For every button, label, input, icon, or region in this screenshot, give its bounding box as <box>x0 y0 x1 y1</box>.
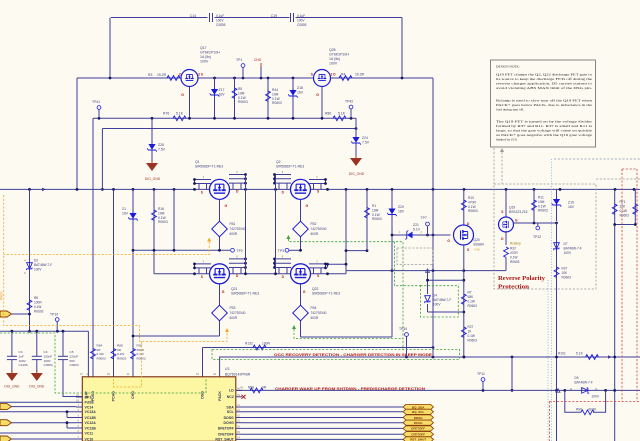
svg-text:D2: D2 <box>34 259 38 263</box>
pin ladder Q2 source <box>309 179 326 181</box>
svg-text:DIG_GND: DIG_GND <box>349 172 365 176</box>
wire Q22 source spur <box>327 264 329 267</box>
svg-text:Rclamp is used to slow turn of: Rclamp is used to slow turn off the Q19 … <box>496 99 592 103</box>
wire Q20 source column <box>463 245 465 357</box>
resistor R44 <box>267 78 269 118</box>
wire Q25 gate <box>321 87 323 119</box>
transistor Q17 <box>179 46 220 97</box>
svg-text:Rclamp: Rclamp <box>510 242 521 246</box>
net label CFETOFF <box>403 432 434 437</box>
svg-text:0.1W: 0.1W <box>468 300 475 304</box>
svg-text:VC11: VC11 <box>85 431 94 435</box>
wire DSG net <box>203 347 434 349</box>
ferrite bead FB1 <box>212 221 228 237</box>
svg-text:DIG_GND: DIG_GND <box>145 177 161 181</box>
svg-text:0.1W: 0.1W <box>510 256 517 260</box>
svg-text:G: G <box>316 93 319 97</box>
junction dots rail 2 <box>28 188 31 191</box>
red dashed box right <box>622 168 637 170</box>
svg-text:DDSG: DDSG <box>414 416 423 420</box>
svg-text:Q17: Q17 <box>200 46 207 50</box>
svg-text:44: 44 <box>126 372 130 376</box>
svg-text:R0603: R0603 <box>562 276 572 280</box>
svg-text:C0603: C0603 <box>44 363 53 367</box>
capacitor C4 <box>36 331 38 356</box>
transistor Q20 <box>454 225 474 245</box>
svg-text:3 S: 3 S <box>198 73 204 77</box>
svg-text:Reverse Polarity: Reverse Polarity <box>498 275 546 282</box>
pin ladder Q22 source <box>309 263 326 265</box>
svg-text:SIR508DP-T1-RE3: SIR508DP-T1-RE3 <box>312 292 340 296</box>
svg-text:1A (5s): 1A (5s) <box>200 55 211 59</box>
svg-text:BSS123,215: BSS123,215 <box>509 210 528 214</box>
offpage connector PACK sense <box>0 311 12 317</box>
svg-text:100V: 100V <box>433 303 441 307</box>
svg-text:100V: 100V <box>329 62 338 66</box>
ground DIG_GND left <box>146 160 158 171</box>
resistor R71 <box>614 189 616 441</box>
svg-text:R44: R44 <box>272 88 278 92</box>
pin ladder Q22 drain <box>275 258 292 260</box>
zener Z21 <box>405 230 413 239</box>
test point TP12 <box>537 223 539 226</box>
svg-text:R11: R11 <box>538 196 544 200</box>
svg-text:5.1K: 5.1K <box>176 112 184 116</box>
pin ladder Q21 drain <box>229 258 246 260</box>
svg-text:U3: U3 <box>225 367 229 371</box>
svg-text:Q21: Q21 <box>231 287 238 291</box>
gray highlight box reverse polarity <box>494 184 596 289</box>
wire PCHG column <box>113 189 115 376</box>
resistor R3 <box>167 76 180 81</box>
svg-text:DSG: DSG <box>201 391 205 399</box>
wire drop column <box>345 189 347 270</box>
capacitor C3 <box>11 331 13 356</box>
svg-text:470R: 470R <box>468 200 477 204</box>
svg-text:R0603: R0603 <box>272 101 282 105</box>
svg-text:G: G <box>225 204 228 208</box>
resistor R8 <box>27 300 32 310</box>
svg-text:10M: 10M <box>272 92 279 96</box>
svg-text:100R: 100R <box>262 342 271 346</box>
wire merge arrows <box>42 188 46 192</box>
svg-text:Z25: Z25 <box>158 143 164 147</box>
svg-text:SIR508DP-T1-RE3: SIR508DP-T1-RE3 <box>231 292 259 296</box>
svg-text:0.1W: 0.1W <box>158 216 167 220</box>
wire LD net <box>236 389 640 391</box>
pin ladder Q1 source <box>195 179 212 181</box>
svg-text:0.1W: 0.1W <box>272 97 281 101</box>
svg-text:100V: 100V <box>34 268 42 272</box>
svg-text:GT6K2P10H: GT6K2P10H <box>329 53 349 57</box>
svg-text:BAT46W-7-F: BAT46W-7-F <box>34 263 52 267</box>
svg-text:42: 42 <box>213 372 217 376</box>
no-connect NC2 <box>242 395 246 399</box>
svg-text:D7: D7 <box>564 242 568 246</box>
wire drain column Q1/Q21 <box>245 175 247 274</box>
svg-text:742792040: 742792040 <box>311 311 327 315</box>
wire drain column Q2/Q22 <box>275 175 277 274</box>
capacitor C19 <box>271 13 307 27</box>
IC right pins <box>236 389 242 391</box>
wire cap rail <box>0 330 88 332</box>
svg-text:0.1W: 0.1W <box>538 204 547 208</box>
wire Z21 node <box>392 234 451 236</box>
svg-text:OCC RECOVERY DETECTION - CHARG: OCC RECOVERY DETECTION - CHARGER DETECTI… <box>274 352 432 357</box>
svg-text:CFETOFF: CFETOFF <box>411 433 425 437</box>
svg-text:NC2: NC2 <box>227 395 234 399</box>
svg-text:R5: R5 <box>238 87 242 91</box>
svg-text:19.2R: 19.2R <box>157 73 167 77</box>
svg-text:SIR508DP-T1-RE3: SIR508DP-T1-RE3 <box>195 164 223 168</box>
svg-text:R27: R27 <box>468 325 474 329</box>
wire Q19 gate node <box>514 222 557 224</box>
svg-text:R0603: R0603 <box>510 260 520 264</box>
net label DCHG <box>403 420 434 425</box>
svg-text:FB3: FB3 <box>230 306 236 310</box>
svg-text:VC10: VC10 <box>85 437 94 441</box>
svg-text:R0603: R0603 <box>34 310 44 314</box>
pin ladder Q1 drain <box>229 174 246 176</box>
test point TP2 <box>231 248 235 252</box>
svg-text:100V: 100V <box>297 19 305 23</box>
svg-text:C1206: C1206 <box>19 363 28 367</box>
svg-text:5.1K: 5.1K <box>576 352 584 356</box>
svg-text:742792040: 742792040 <box>230 227 246 231</box>
diode D2 <box>29 189 31 331</box>
green highlight box D4 <box>420 286 458 317</box>
svg-text:G: G <box>303 290 306 294</box>
wire ground return <box>102 128 356 130</box>
svg-text:PDSG: PDSG <box>91 391 95 401</box>
svg-text:FB4: FB4 <box>311 306 317 310</box>
diode D9 <box>582 388 590 394</box>
svg-text:CHG: CHG <box>131 391 135 399</box>
zener Z1 <box>132 189 134 376</box>
svg-text:5.1K: 5.1K <box>338 112 346 116</box>
probe path orange <box>4 242 210 255</box>
svg-text:C5: C5 <box>70 350 74 354</box>
svg-text:Q22: Q22 <box>312 287 319 291</box>
svg-text:VC12B: VC12B <box>85 426 97 430</box>
svg-text:R0603: R0603 <box>468 339 478 343</box>
svg-text:G: G <box>515 219 518 223</box>
ground C4 <box>31 370 43 381</box>
svg-text:A: A <box>570 387 572 391</box>
svg-text:46: 46 <box>86 372 90 376</box>
svg-text:16V: 16V <box>297 91 304 95</box>
wire Q17 gate <box>189 87 191 119</box>
svg-text:R32: R32 <box>510 247 516 251</box>
svg-text:R10: R10 <box>468 196 474 200</box>
svg-text:0.1uF: 0.1uF <box>216 14 224 18</box>
svg-text:R80: R80 <box>325 112 331 116</box>
svg-text:K: K <box>24 271 26 275</box>
svg-text:16V: 16V <box>398 210 405 214</box>
resistor R11 <box>533 189 535 223</box>
svg-text:R101: R101 <box>558 352 566 356</box>
svg-text:Z17: Z17 <box>219 88 225 92</box>
svg-text:D9: D9 <box>575 376 579 380</box>
svg-text:SDA: SDA <box>226 405 234 409</box>
svg-text:FUSE: FUSE <box>85 401 95 405</box>
wire VC jog 1 <box>66 412 68 418</box>
svg-text:A: A <box>24 259 26 263</box>
svg-text:Z24: Z24 <box>362 136 368 140</box>
svg-text:R7: R7 <box>468 291 472 295</box>
svg-text:Z18: Z18 <box>297 86 303 90</box>
wire main rail 3 <box>154 273 210 275</box>
svg-text:R0603: R0603 <box>238 100 248 104</box>
resistor R72 <box>634 189 636 224</box>
svg-text:Q20: Q20 <box>474 238 480 242</box>
svg-text:100R: 100R <box>34 301 42 305</box>
svg-text:470R: 470R <box>510 251 518 255</box>
ferrite bead FB2 <box>293 221 309 237</box>
svg-text:Z19: Z19 <box>568 201 574 205</box>
svg-text:C0805: C0805 <box>297 23 307 27</box>
transistor Q22 <box>291 264 311 284</box>
IC U3 BQ769142PFBR body <box>82 377 236 441</box>
ferrite bead FB4 <box>293 305 309 321</box>
svg-text:R71: R71 <box>620 200 626 204</box>
svg-text:TP10: TP10 <box>50 313 58 317</box>
resistor R98 <box>250 388 263 393</box>
svg-text:BQ_SCL: BQ_SCL <box>412 410 424 414</box>
svg-text:SIR508DP-T1-RE3: SIR508DP-T1-RE3 <box>276 164 304 168</box>
svg-text:0.1W: 0.1W <box>620 209 627 213</box>
svg-text:R0603: R0603 <box>97 356 106 360</box>
svg-text:100V: 100V <box>44 359 52 363</box>
svg-text:load during turn off.: load during turn off. <box>496 108 524 112</box>
svg-text:R98: R98 <box>248 386 254 390</box>
svg-text:R16: R16 <box>158 207 164 211</box>
svg-text:R0603: R0603 <box>538 209 548 213</box>
svg-text:10M: 10M <box>158 211 165 215</box>
svg-text:DCHG: DCHG <box>223 421 234 425</box>
wire PACK to LD column <box>511 357 513 390</box>
svg-text:R0603: R0603 <box>117 356 126 360</box>
svg-text:VC14: VC14 <box>85 405 94 409</box>
svg-text:100V: 100V <box>564 251 572 255</box>
svg-text:BSS84: BSS84 <box>474 243 484 247</box>
svg-text:CHG: CHG <box>254 58 262 62</box>
svg-text:BQ769142PFBR: BQ769142PFBR <box>225 373 251 377</box>
resistor R101 <box>586 355 599 360</box>
svg-text:VC13A: VC13A <box>85 410 97 414</box>
junction dots cap rail <box>11 330 14 333</box>
svg-text:2 D: 2 D <box>331 73 337 77</box>
svg-text:45: 45 <box>107 372 111 376</box>
svg-text:R99: R99 <box>576 407 582 411</box>
svg-text:R0603: R0603 <box>372 217 382 221</box>
zener Z17 <box>214 78 216 118</box>
design note box <box>491 60 596 147</box>
diode D7 <box>556 223 558 441</box>
offpage connectors left <box>0 401 76 403</box>
resistor R5 <box>234 78 236 118</box>
junction dots TP2 wire <box>132 249 135 252</box>
svg-text:TP3: TP3 <box>278 249 284 253</box>
svg-text:reverse charger application. D: reverse charger application. D5 carries … <box>496 82 592 86</box>
resistor R37 <box>554 267 559 277</box>
svg-text:100V: 100V <box>216 19 224 23</box>
resistor R80 <box>333 116 346 121</box>
zener Z25 <box>151 118 153 143</box>
diode D4 <box>427 271 429 294</box>
zener Z20 <box>391 189 393 337</box>
resistor R35 <box>131 349 136 359</box>
transistor Q25 <box>311 48 350 97</box>
svg-text:R4: R4 <box>341 73 345 77</box>
pin ladder Q2 drain <box>275 174 292 176</box>
resistor R1 <box>366 189 368 250</box>
svg-text:600R: 600R <box>230 316 238 320</box>
svg-text:DFETOFF: DFETOFF <box>218 427 235 431</box>
transistor Q1 <box>210 179 230 199</box>
pin ladder Q21 source <box>195 263 212 265</box>
capacitor C5 <box>62 331 64 356</box>
svg-text:68K: 68K <box>468 295 475 299</box>
svg-text:CFETOFF: CFETOFF <box>218 433 235 437</box>
svg-text:Protection: Protection <box>498 284 529 291</box>
svg-text:PCHG: PCHG <box>112 391 116 402</box>
svg-text:avoid violating ABS MAX limit: avoid violating ABS MAX limit of the DSG… <box>496 86 592 90</box>
svg-text:BAT46W-7-F: BAT46W-7-F <box>433 298 451 302</box>
resistor R132 <box>253 345 266 350</box>
svg-text:G: G <box>447 239 450 243</box>
svg-text:C0603: C0603 <box>70 363 79 367</box>
ferrite bead FB3 <box>212 305 228 321</box>
wire TP2 branch <box>173 189 175 250</box>
net label RST_SHUT <box>403 437 434 441</box>
svg-text:R0603: R0603 <box>158 220 168 224</box>
svg-text:100V: 100V <box>19 359 27 363</box>
resistor R32 Rclamp <box>504 247 509 257</box>
svg-text:TP1: TP1 <box>236 58 242 62</box>
svg-text:20K: 20K <box>620 205 627 209</box>
svg-text:its source to keep the dischar: its source to keep the discharge FETs of… <box>496 77 593 81</box>
svg-text:DIG_GND: DIG_GND <box>4 385 20 389</box>
svg-text:1A (5s): 1A (5s) <box>329 57 340 61</box>
svg-text:Q19: Q19 <box>509 206 515 210</box>
net label BQ_SDA <box>403 404 434 409</box>
svg-text:FB2: FB2 <box>311 222 317 226</box>
resistor R27 <box>461 327 466 337</box>
svg-text:49.9K: 49.9K <box>588 407 597 411</box>
svg-text:40: 40 <box>240 386 244 390</box>
svg-text:Z20: Z20 <box>398 205 404 209</box>
capacitor C14 <box>190 13 226 27</box>
svg-text:DCHG: DCHG <box>414 421 423 425</box>
resistor R10 <box>463 189 465 225</box>
svg-text:VC12A: VC12A <box>85 421 97 425</box>
svg-text:as PACK+ goes negative with th: as PACK+ goes negative with the Q19 gate… <box>496 133 593 137</box>
svg-text:DFETOFF: DFETOFF <box>411 427 425 431</box>
svg-text:TP7: TP7 <box>421 216 427 220</box>
wire gate drive bus <box>93 117 356 119</box>
svg-text:GT6K2P10H: GT6K2P10H <box>200 51 220 55</box>
svg-text:R37: R37 <box>562 267 568 271</box>
wires to net labels <box>242 406 403 408</box>
svg-text:C0805: C0805 <box>216 23 226 27</box>
svg-text:Q2: Q2 <box>276 160 281 164</box>
svg-text:742792040: 742792040 <box>311 227 327 231</box>
probe path green <box>288 239 403 350</box>
svg-text:TP12: TP12 <box>533 235 541 239</box>
svg-text:50V: 50V <box>70 359 76 363</box>
wire top rail <box>77 77 181 79</box>
wire rail1 drop column <box>432 189 434 357</box>
svg-text:0.1uF: 0.1uF <box>297 14 305 18</box>
resistor R99 bypass <box>565 390 581 412</box>
ground DIG_GND right <box>350 155 362 166</box>
svg-text:CP1: CP1 <box>85 395 92 399</box>
svg-text:G: G <box>222 290 225 294</box>
svg-text:1uF: 1uF <box>19 354 24 358</box>
svg-text:7.5V: 7.5V <box>362 141 370 145</box>
svg-text:0.1W: 0.1W <box>238 96 247 100</box>
resistor R76 <box>173 116 186 121</box>
resistor R88 <box>111 349 116 359</box>
svg-text:K: K <box>596 387 598 391</box>
junction dots top rail <box>109 77 112 80</box>
zener Z18 <box>292 78 294 118</box>
svg-text:The Q19 FET is turned on by th: The Q19 FET is turned on by the voltage … <box>496 120 593 124</box>
svg-text:VC13B: VC13B <box>85 416 97 420</box>
net label DDSG <box>403 415 434 420</box>
gray highlight box clamp <box>397 248 433 265</box>
svg-text:0.1W: 0.1W <box>34 305 41 309</box>
svg-text:19.2R: 19.2R <box>355 73 365 77</box>
svg-text:10M: 10M <box>538 200 545 204</box>
wire VC jog 2 <box>66 423 68 428</box>
svg-text:Q25: Q25 <box>329 48 336 52</box>
svg-text:R76: R76 <box>163 112 169 116</box>
net label DFETOFF <box>403 426 434 431</box>
gray pointer to design note <box>501 152 503 184</box>
wire top capacitor rail <box>111 17 208 19</box>
svg-text:F-08: F-08 <box>475 249 481 252</box>
svg-text:7.5V: 7.5V <box>158 148 166 152</box>
svg-text:R0603: R0603 <box>468 209 478 213</box>
transistor Q19 <box>505 189 507 217</box>
svg-text:FB1: FB1 <box>230 222 236 226</box>
net label BQ_SCL <box>403 409 434 414</box>
svg-text:DESIGN NOTE:: DESIGN NOTE: <box>496 65 520 69</box>
svg-text:600R: 600R <box>311 232 319 236</box>
svg-text:formed by R37 and R11. R37 is: formed by R37 and R11. R37 is small and … <box>496 124 593 128</box>
svg-text:PACK: PACK <box>218 391 222 401</box>
svg-text:600R: 600R <box>311 316 319 320</box>
zener Z19 <box>556 189 558 221</box>
junction dots rail 3 <box>193 272 196 275</box>
zener Z24 <box>355 118 357 136</box>
junction dots DSG net <box>432 346 435 349</box>
wire Q22 gate <box>300 284 302 308</box>
resistor R16 <box>153 189 155 273</box>
svg-text:R132: R132 <box>245 342 253 346</box>
svg-text:C19: C19 <box>271 14 277 18</box>
svg-text:BAT46W-7-F: BAT46W-7-F <box>564 247 582 251</box>
svg-text:43: 43 <box>196 372 200 376</box>
svg-text:C3: C3 <box>19 350 23 354</box>
svg-text:TP42: TP42 <box>345 100 353 104</box>
svg-text:0.1W: 0.1W <box>468 334 475 338</box>
junction dots PACK net <box>405 356 408 359</box>
junction dots LD net <box>482 389 485 392</box>
svg-text:100V: 100V <box>592 394 600 398</box>
